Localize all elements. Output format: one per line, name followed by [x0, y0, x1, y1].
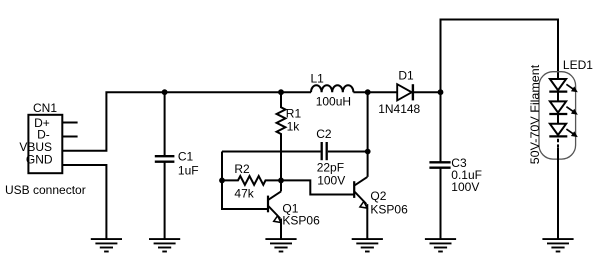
transistor Q1 KSP06 (NPN) — [268, 180, 320, 238]
junction output node — [438, 89, 444, 95]
wire C2 right to Q2 collector line — [328, 151, 368, 153]
resistor R1 1k — [277, 92, 302, 180]
wire rail junction down to Q2 collector — [367, 92, 369, 177]
capacitor C2 22pF 100V — [316, 127, 345, 187]
junction rail-Q2 collector branch — [365, 89, 371, 95]
svg-text:KSP06: KSP06 — [282, 214, 320, 228]
connector CN1 (USB) — [19, 101, 62, 173]
wire node B to Q2 base — [281, 180, 354, 194]
svg-text:47k: 47k — [234, 187, 254, 201]
wire LED2-LED3 — [557, 114, 559, 124]
svg-text:100uH: 100uH — [316, 94, 351, 108]
junction C2-collector — [365, 149, 371, 155]
resistor R2 47k — [222, 162, 281, 201]
ground (Q2 emitter) — [352, 239, 383, 251]
capacitor C1 1uF — [155, 149, 199, 177]
LED D2 of filament — [549, 101, 578, 114]
capacitor C3 0.1uF 100V — [429, 156, 482, 194]
svg-text:USB connector: USB connector — [5, 183, 86, 197]
svg-text:GND: GND — [26, 152, 53, 166]
LED D3 emission arrow — [566, 129, 574, 135]
LED D1 emission arrow — [566, 84, 574, 90]
LED D2 emission arrow — [566, 107, 574, 113]
junction R2 left — [219, 178, 225, 184]
pin D+ stub — [62, 122, 77, 124]
svg-text:C2: C2 — [316, 127, 332, 141]
ground (Q1 emitter) — [265, 239, 296, 251]
LED D1 of filament — [549, 79, 578, 92]
pin D- stub — [62, 136, 77, 138]
svg-text:L1: L1 — [311, 72, 325, 86]
inductor L1 100uH — [311, 72, 354, 109]
svg-text:1N4148: 1N4148 — [378, 102, 420, 116]
svg-text:100V: 100V — [317, 173, 345, 187]
svg-text:Q2: Q2 — [370, 189, 386, 203]
wire LED chain to ground — [557, 148, 559, 239]
ground (LED1) — [542, 239, 573, 251]
transistor Q2 KSP06 (NPN) — [354, 177, 408, 239]
svg-text:R1: R1 — [286, 106, 302, 120]
svg-text:D1: D1 — [398, 68, 414, 82]
ground (USB GND) — [91, 239, 122, 251]
svg-text:1k: 1k — [287, 120, 301, 134]
LED D3 of filament — [549, 124, 578, 137]
wire output node up over to LED1 — [441, 20, 559, 93]
wire output node to C3 — [440, 92, 442, 162]
svg-text:R2: R2 — [234, 162, 250, 176]
svg-text:C1: C1 — [178, 149, 194, 163]
svg-text:CN1: CN1 — [33, 101, 57, 115]
wire VBUS pin to top rail through L1 start — [62, 92, 311, 151]
junction rail-R1 — [278, 89, 284, 95]
wire C1 bottom to ground — [164, 162, 166, 239]
svg-text:KSP06: KSP06 — [370, 203, 408, 217]
Q1 emitter open arrowhead — [274, 216, 281, 223]
wire L1 to D1 anode — [353, 91, 397, 93]
wire LED1-LED2 — [557, 92, 559, 102]
svg-text:LED1: LED1 — [563, 58, 593, 72]
ground (C3) — [425, 239, 456, 251]
wire Q1 base node to C2 left — [222, 151, 321, 153]
svg-text:1uF: 1uF — [178, 163, 199, 177]
junction node B (R1/R2/Q1 collector) — [278, 178, 284, 184]
svg-text:100V: 100V — [451, 180, 479, 194]
wire GND pin to ground — [62, 165, 106, 239]
LED1 filament outline — [539, 72, 576, 159]
Q2 emitter open arrowhead — [360, 201, 367, 208]
wire C2/feedback to Q1 base — [222, 152, 268, 210]
wire C3 to ground — [440, 168, 442, 239]
junction rail-C1 — [162, 89, 168, 95]
diode D1 1N4148 — [378, 68, 420, 116]
wire dashed continuation below LED3 — [557, 139, 559, 148]
wire rail to C1 top — [164, 92, 166, 156]
wire D1 cathode to output node — [413, 91, 441, 93]
svg-text:50V-70V Filament: 50V-70V Filament — [528, 64, 542, 164]
ground (C1) — [149, 239, 180, 251]
